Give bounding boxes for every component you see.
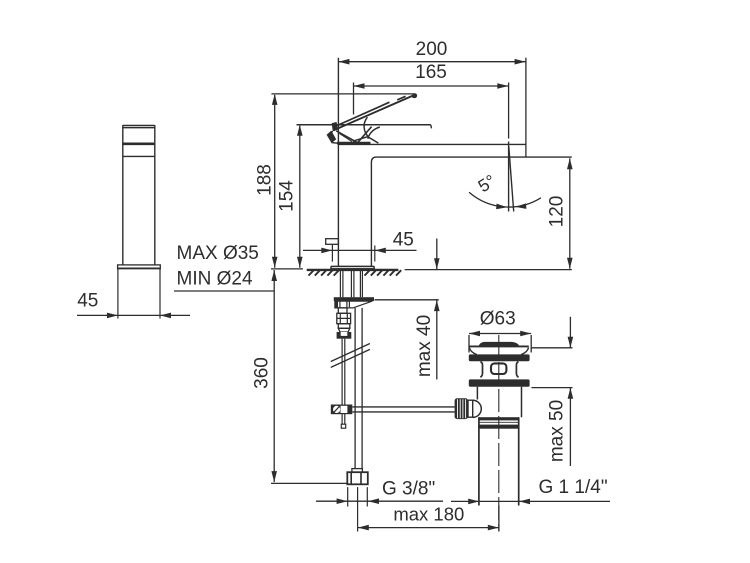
svg-text:200: 200 bbox=[416, 39, 448, 60]
svg-text:max 50: max 50 bbox=[547, 400, 568, 462]
svg-text:120: 120 bbox=[547, 196, 568, 228]
svg-text:G 1 1/4": G 1 1/4" bbox=[539, 477, 608, 498]
svg-text:360: 360 bbox=[252, 357, 273, 389]
svg-text:188: 188 bbox=[255, 164, 276, 196]
svg-text:MAX Ø35: MAX Ø35 bbox=[177, 243, 259, 264]
svg-text:5°: 5° bbox=[474, 170, 499, 196]
svg-text:45: 45 bbox=[393, 230, 414, 251]
svg-text:165: 165 bbox=[415, 62, 447, 83]
svg-text:Ø63: Ø63 bbox=[480, 309, 516, 330]
svg-text:MIN Ø24: MIN Ø24 bbox=[177, 268, 253, 289]
svg-text:max 180: max 180 bbox=[393, 504, 464, 525]
svg-text:45: 45 bbox=[77, 291, 98, 312]
svg-text:154: 154 bbox=[277, 180, 298, 212]
svg-text:max 40: max 40 bbox=[414, 315, 435, 377]
svg-text:G 3/8": G 3/8" bbox=[382, 478, 435, 499]
